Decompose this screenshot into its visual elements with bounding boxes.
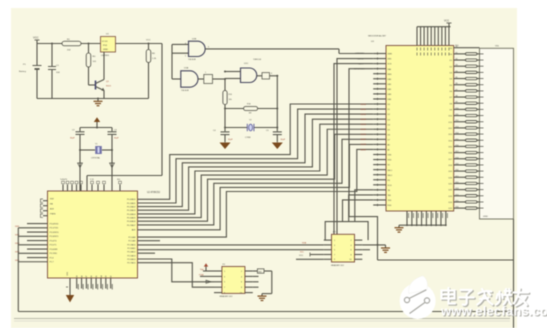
lcd controller U3 body (386, 46, 454, 212)
svg-text:DB4: DB4 (388, 99, 392, 101)
svg-text:R10: R10 (456, 108, 459, 110)
wire u5 loop (325, 222, 368, 241)
svg-text:74LS08: 74LS08 (181, 90, 189, 92)
wire bus data to LCD (138, 104, 374, 237)
svg-text:D2: D2 (388, 114, 390, 116)
wire V0 direct (466, 47, 480, 49)
svg-text:R20: R20 (456, 170, 459, 172)
lcd top pin numbers (417, 48, 449, 56)
svg-text:5: 5 (334, 250, 335, 252)
svg-text:VI VO: VI VO (102, 41, 108, 43)
wire lcd tb (355, 190, 373, 222)
junction R6 top (148, 43, 150, 45)
svg-text:R17: R17 (456, 151, 459, 153)
svg-text:R14: R14 (456, 133, 459, 135)
ground C5 (272, 143, 283, 150)
svg-text:D7: D7 (388, 139, 390, 141)
watermark elecfans (400, 276, 547, 320)
svg-text:XA0: XA0 (388, 68, 392, 71)
svg-text:V0: V0 (450, 48, 452, 50)
wire lcd ctrl 2 (334, 64, 373, 240)
wire mcu stub2 (138, 252, 156, 254)
wire gate U1B out long (205, 48, 339, 50)
resistor R0 (86, 53, 91, 67)
svg-text:DB1: DB1 (388, 84, 392, 86)
svg-text:A1: A1 (388, 149, 390, 152)
wire U1C inputs (225, 71, 241, 73)
svg-text:30pF: 30pF (70, 138, 75, 140)
svg-text:6: 6 (350, 250, 351, 252)
svg-text:D4: D4 (450, 79, 452, 81)
svg-text:R25: R25 (456, 200, 459, 202)
svg-text:30pF: 30pF (281, 139, 286, 141)
svg-text:LM7805: LM7805 (101, 55, 110, 57)
wire gate input bus (171, 44, 173, 79)
svg-text:D12: D12 (449, 128, 452, 130)
mcu left upper pins (41, 199, 48, 218)
svg-text:U1A: U1A (184, 67, 189, 70)
svg-text:D5: D5 (450, 85, 452, 87)
and gate U1B (189, 41, 206, 56)
svg-text:GDB7: GDB7 (360, 139, 367, 141)
svg-text:P3.0/RXD: P3.0/RXD (50, 224, 59, 226)
wire osc right branch (276, 76, 278, 132)
wire p2 right drop (271, 271, 273, 294)
header P2 body (222, 267, 245, 294)
svg-text:CRYSTAL: CRYSTAL (91, 157, 101, 160)
svg-text:GDB0: GDB0 (360, 104, 367, 106)
capacitor C2 (79, 128, 81, 132)
wire mid right (378, 259, 514, 261)
svg-text:36: 36 (91, 276, 93, 278)
wire right loop (513, 219, 515, 328)
header U5 pins (324, 240, 363, 261)
svg-text:DB3: DB3 (388, 94, 392, 96)
svg-text:4: 4 (350, 245, 351, 247)
and gate U1A (181, 71, 198, 87)
svg-text:D6: D6 (450, 91, 452, 93)
svg-text:Battery: Battery (19, 70, 27, 73)
svg-text:P3.1/TXD: P3.1/TXD (50, 228, 59, 230)
svg-text:P0.1/AD1: P0.1/AD1 (127, 202, 136, 205)
svg-text:1: 1 (224, 271, 225, 273)
svg-text:D18: D18 (449, 165, 452, 167)
voltage regulator U1 (101, 37, 116, 53)
svg-text:D4: D4 (388, 124, 390, 126)
svg-text:D10: D10 (449, 116, 452, 118)
svg-text:GND: GND (103, 49, 108, 51)
crystal Y2 (225, 127, 247, 129)
wire power bottom rail (37, 98, 149, 100)
capacitor C5 (273, 131, 282, 133)
mcu U2 body (48, 191, 138, 278)
svg-text:74HC04: 74HC04 (253, 59, 262, 61)
junction C1 top (51, 43, 53, 45)
svg-text:SEL2: SEL2 (388, 175, 393, 177)
wire EA to VCC rail (161, 44, 163, 176)
svg-text:1: 1 (334, 240, 335, 242)
svg-text:GND: GND (483, 216, 488, 218)
buffer out box U1C (262, 73, 270, 79)
wire left branch (36, 44, 38, 61)
wire Q1 base (89, 84, 96, 86)
junction R0 top (88, 43, 90, 45)
svg-text:D6: D6 (388, 134, 390, 136)
svg-text:9: 9 (224, 293, 225, 295)
svg-text:VCC: VCC (299, 255, 304, 257)
svg-text:GDB3: GDB3 (360, 119, 367, 121)
wire lcd tb1 (349, 195, 374, 222)
wire u5 out1 (362, 244, 385, 246)
wire p2 out4 (253, 286, 259, 288)
wire lcd trd (343, 200, 374, 222)
svg-text:D19: D19 (449, 171, 452, 173)
svg-text:D2: D2 (450, 66, 452, 68)
svg-text:U1B: U1B (192, 38, 197, 40)
svg-text:P0.5/AD5: P0.5/AD5 (127, 217, 136, 220)
svg-text:P2.6/A14: P2.6/A14 (127, 258, 136, 261)
capacitor C1 (51, 44, 53, 67)
svg-text:ALE: ALE (132, 229, 136, 232)
lcd left pin names (388, 54, 393, 208)
wire lcd bottom rail (399, 224, 446, 226)
svg-text:SED1335F0A-CMY: SED1335F0A-CMY (368, 35, 387, 38)
svg-text:D15: D15 (449, 147, 452, 149)
mcu left pins wires (18, 224, 47, 262)
svg-text:GDB4: GDB4 (360, 124, 367, 126)
svg-text:P3.4/T0: P3.4/T0 (50, 240, 58, 242)
svg-text:33: 33 (106, 276, 108, 278)
svg-text:P2.4/A12: P2.4/A12 (127, 251, 136, 254)
svg-text:R4: R4 (456, 71, 458, 73)
svg-text:P3.3/INT1: P3.3/INT1 (50, 236, 60, 238)
resistor R10 (225, 108, 244, 110)
svg-text:R22: R22 (456, 182, 459, 184)
wire p2 out3 (253, 281, 259, 283)
power arrow crystal (94, 117, 100, 122)
svg-text:P2.2/A10: P2.2/A10 (127, 243, 136, 246)
svg-text:TRD: TRD (388, 200, 393, 202)
svg-text:R9: R9 (456, 102, 458, 104)
svg-text:P0.7/AD7: P0.7/AD7 (127, 224, 136, 227)
svg-text:P0.2/AD2: P0.2/AD2 (127, 206, 136, 209)
svg-text:P0.6/AD6: P0.6/AD6 (127, 220, 136, 223)
resistor R6 (146, 50, 151, 63)
svg-text:GDB5: GDB5 (360, 129, 367, 131)
svg-text:CYNE: CYNE (245, 137, 251, 139)
svg-text:U1C: U1C (244, 63, 249, 65)
svg-text:7: 7 (334, 254, 335, 256)
svg-text:5: 5 (185, 55, 186, 57)
svg-text:32: 32 (110, 276, 112, 278)
svg-text:DB2: DB2 (388, 89, 392, 91)
svg-text:P0.3/AD3: P0.3/AD3 (127, 209, 136, 212)
wire p2 out1 rst (253, 270, 258, 272)
svg-text:4: 4 (241, 276, 242, 278)
svg-text:35: 35 (96, 276, 98, 278)
svg-text:P2.0/A8: P2.0/A8 (128, 236, 136, 239)
svg-text:VCC: VCC (444, 20, 449, 23)
transistor Q1 (95, 81, 97, 90)
svg-text:TxRxP0: TxRxP0 (60, 179, 68, 181)
svg-text:6: 6 (241, 282, 242, 284)
svg-text:R26: R26 (456, 207, 459, 209)
svg-text:LWR/WA7: LWR/WA7 (355, 52, 365, 55)
svg-text:37: 37 (86, 276, 88, 278)
svg-text:P0.4/AD4: P0.4/AD4 (127, 213, 136, 216)
svg-text:D20: D20 (449, 177, 452, 179)
svg-text:VCC: VCC (33, 36, 39, 40)
ground u5 (385, 245, 387, 248)
svg-text:10: 10 (240, 293, 242, 295)
svg-text:P2.5/A13: P2.5/A13 (127, 254, 136, 257)
svg-text:P3.6/WR: P3.6/WR (50, 249, 59, 251)
svg-text:P3.5/T1: P3.5/T1 (50, 245, 58, 247)
wire bottom loop (18, 311, 513, 313)
wire mcu stub1 (138, 240, 161, 242)
svg-text:8: 8 (241, 287, 242, 289)
lcd right pins (454, 46, 466, 208)
svg-text:R13: R13 (456, 126, 459, 128)
svg-text:R5: R5 (456, 77, 458, 79)
svg-text:R7: R7 (456, 89, 458, 91)
svg-text:74LS08: 74LS08 (188, 59, 196, 61)
resistor R11 (223, 91, 227, 105)
svg-text:R23: R23 (456, 188, 459, 190)
svg-text:9: 9 (334, 259, 335, 261)
svg-text:R3: R3 (456, 65, 458, 67)
svg-text:D22: D22 (449, 190, 452, 192)
svg-text:D8: D8 (450, 103, 452, 105)
svg-text:9013: 9013 (106, 86, 112, 88)
svg-text:R15: R15 (456, 139, 459, 141)
svg-text:P2.1/A9: P2.1/A9 (128, 240, 136, 243)
wire crystal top rail (80, 127, 112, 129)
svg-text:30k: 30k (117, 179, 120, 181)
lcd bottom pins (406, 211, 447, 226)
svg-text:DB0: DB0 (388, 79, 392, 81)
wire mcu scl (138, 249, 324, 251)
svg-text:GDB1: GDB1 (360, 109, 367, 111)
svg-text:D1: D1 (450, 60, 452, 62)
svg-text:V0: V0 (388, 165, 390, 167)
svg-text:R19: R19 (456, 163, 459, 165)
and gate U1C (241, 68, 257, 83)
wire U1A out (213, 78, 226, 80)
net arrow X1 (78, 163, 83, 168)
svg-text:2: 2 (350, 240, 351, 242)
wire lcd ctrl 1 (337, 59, 373, 235)
svg-text:P3.2/INT0: P3.2/INT0 (50, 232, 60, 234)
svg-text:XWR: XWR (388, 54, 393, 56)
svg-text:U2 AT89C52: U2 AT89C52 (147, 191, 161, 194)
svg-text:VCC: VCC (146, 40, 151, 42)
svg-text:8: 8 (350, 254, 351, 256)
wire U1C out (270, 75, 278, 77)
header P2 pins (214, 271, 253, 295)
svg-text:D7: D7 (450, 97, 452, 99)
svg-text:ALE: ALE (50, 208, 54, 211)
wire Q1 emitter (103, 91, 105, 99)
wire osc left branch (224, 109, 226, 128)
svg-text:R11: R11 (456, 114, 459, 116)
svg-text:R21: R21 (456, 176, 459, 178)
svg-text:D0: D0 (450, 54, 452, 56)
battery P1 (33, 65, 42, 67)
wire p2 out2 (253, 275, 259, 277)
svg-text:GDB2: GDB2 (360, 114, 367, 116)
resistor R1 (62, 41, 81, 46)
mcu top pins (62, 181, 122, 191)
svg-text:39: 39 (77, 276, 79, 278)
svg-text:A0: A0 (388, 144, 390, 147)
svg-text:SEL1: SEL1 (388, 170, 393, 172)
svg-text:D13: D13 (449, 134, 452, 136)
header U5 body (332, 234, 355, 262)
bus net labels GDB (360, 104, 367, 151)
capacitor C4 (224, 128, 226, 132)
svg-text:D21: D21 (449, 184, 452, 186)
svg-text:D25: D25 (449, 208, 452, 210)
svg-text:TB1: TB1 (388, 195, 391, 197)
svg-text:R2: R2 (456, 59, 458, 61)
svg-text:3: 3 (224, 276, 225, 278)
svg-text:1: 1 (205, 72, 206, 74)
wire mcu sda (138, 244, 324, 246)
svg-text:GDB9: GDB9 (360, 149, 367, 151)
svg-text:HEADER 5X2: HEADER 5X2 (220, 295, 234, 298)
mcu ground VSS (69, 278, 71, 295)
svg-text:D14: D14 (449, 140, 452, 142)
wire left loop (17, 228, 19, 312)
svg-text:D3: D3 (450, 72, 452, 74)
lcd connector pins (480, 54, 484, 208)
svg-text:P3.7/RD: P3.7/RD (50, 253, 58, 255)
lcd top pins (417, 27, 451, 46)
svg-text:30pF: 30pF (114, 138, 119, 140)
svg-text:D11: D11 (449, 122, 452, 124)
svg-text:2: 2 (241, 271, 242, 273)
mcu inside labels (50, 198, 137, 277)
lcd right pin names (449, 48, 452, 210)
crystal Y1 (80, 149, 95, 151)
svg-text:4: 4 (185, 43, 186, 45)
svg-text:7: 7 (224, 287, 225, 289)
wire p2 in3 (138, 259, 215, 282)
lcd connector J1 body (480, 48, 514, 219)
svg-text:R12: R12 (456, 120, 459, 122)
wire battery stub (36, 75, 38, 99)
svg-text:P2.3/A11: P2.3/A11 (127, 247, 136, 250)
ground C4 (220, 143, 231, 150)
svg-text:3: 3 (334, 245, 335, 247)
svg-text:XRD: XRD (388, 59, 393, 61)
svg-text:P0.0/AD0: P0.0/AD0 (127, 198, 136, 201)
wire p2 in2 (200, 275, 214, 277)
svg-text:PSEN: PSEN (50, 214, 56, 216)
svg-text:GDB8: GDB8 (360, 144, 367, 146)
svg-text:5: 5 (224, 282, 225, 284)
svg-text:D23: D23 (449, 196, 452, 198)
svg-text:D1: D1 (388, 109, 390, 111)
svg-text:10: 10 (349, 259, 351, 261)
sheet bottom border line (14, 318, 510, 320)
svg-text:D9: D9 (450, 110, 452, 112)
power arrow P2 (204, 263, 208, 266)
wire lcd ctrl 3 (349, 69, 378, 245)
wire u5 in4 (296, 258, 324, 260)
svg-text:38: 38 (81, 276, 83, 278)
wire VCC rail top (37, 43, 101, 45)
svg-text:D0: D0 (388, 104, 390, 106)
svg-text:D5: D5 (388, 129, 390, 131)
svg-text:P2.7/A15: P2.7/A15 (127, 262, 136, 265)
svg-text:D16: D16 (449, 153, 452, 155)
svg-text:D17: D17 (449, 159, 452, 161)
wire u5 out2 (362, 249, 370, 251)
svg-text:30pF: 30pF (228, 139, 233, 141)
svg-text:R6: R6 (456, 83, 458, 85)
svg-text:SDA: SDA (302, 242, 307, 245)
svg-text:34: 34 (101, 276, 103, 278)
svg-text:10k: 10k (229, 99, 232, 101)
svg-text:R18: R18 (456, 157, 459, 159)
ground lcd bottom (398, 225, 400, 227)
svg-text:VDD: VDD (388, 160, 393, 162)
svg-text:GDB6: GDB6 (360, 134, 367, 136)
wire regulator gnd pin (103, 52, 105, 80)
svg-text:D3: D3 (388, 119, 390, 121)
svg-text:6: 6 (208, 47, 209, 49)
svg-text:R16: R16 (456, 145, 459, 147)
ground p2 (261, 294, 263, 296)
wire p2 in4 (138, 263, 215, 288)
svg-text:R8: R8 (456, 96, 458, 98)
svg-text:R1: R1 (456, 52, 458, 54)
svg-text:XCG: XCG (388, 185, 393, 187)
lcd left pins (373, 52, 386, 206)
svg-text:1M: 1M (249, 113, 252, 115)
mcu bottom pins (77, 278, 113, 290)
svg-text:FGD: FGD (388, 205, 393, 207)
svg-text:www.elecfans.com: www.elecfans.com (440, 304, 547, 319)
svg-text:D24: D24 (449, 202, 452, 204)
net arrow X2 (110, 163, 115, 168)
ground power (97, 99, 99, 102)
svg-text:8: 8 (271, 73, 272, 75)
capacitor C3 (111, 128, 113, 132)
resistor network RP1 (465, 53, 479, 210)
svg-text:HEADER 5X2: HEADER 5X2 (331, 264, 345, 267)
svg-text:R24: R24 (456, 194, 459, 196)
